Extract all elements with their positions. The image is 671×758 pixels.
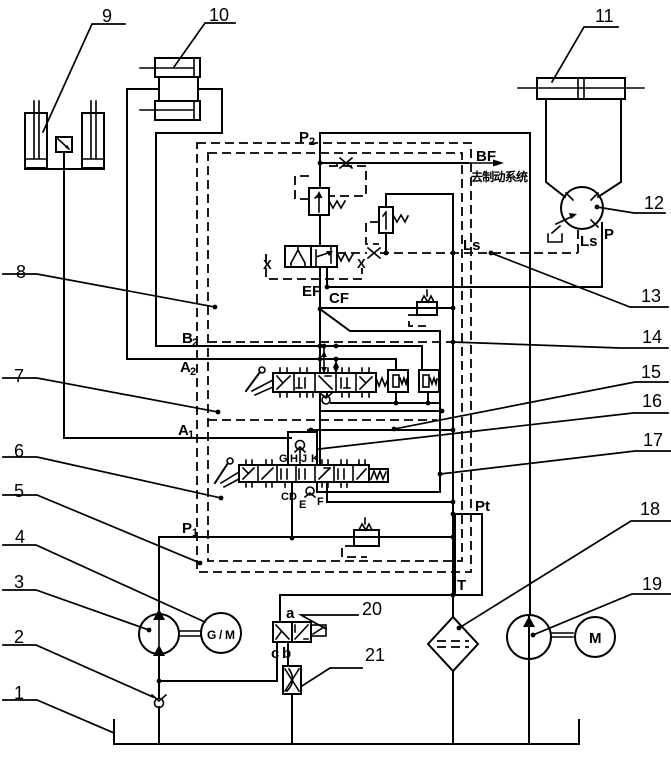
pump 19 circle: [507, 615, 551, 659]
port label EF: [302, 283, 321, 300]
wire relief2 bottom to Ls: [385, 233, 387, 253]
steering cylinder 10 upper: [140, 58, 200, 77]
svg-text:E: E: [299, 499, 306, 511]
svg-text:EF: EF: [302, 283, 321, 300]
label 4: [3, 527, 205, 622]
steering unit 12 circle: [561, 187, 603, 229]
wire b port to valve 21: [287, 642, 289, 666]
svg-text:15: 15: [641, 362, 661, 382]
port label CF: [329, 290, 349, 307]
pilot label X left: [263, 257, 272, 272]
wire EF continue to valve 2: [319, 392, 321, 465]
svg-text:14: 14: [642, 327, 662, 347]
directional valve 1 body: [273, 373, 376, 392]
wire compensator returns: [394, 392, 431, 405]
motor GM circle: [201, 613, 241, 653]
pilot dashed box left of main relief: [295, 176, 309, 199]
svg-text:P: P: [182, 520, 192, 537]
wire pump 19 suction: [528, 659, 530, 744]
wire EF junction diagonal to bridge: [320, 309, 439, 331]
port label Ls left: [463, 237, 481, 254]
port label A1: [178, 422, 194, 441]
valve 2 port ticks: [246, 460, 365, 487]
throttle valve 21: [283, 666, 301, 694]
port label T: [457, 577, 466, 594]
node Ls junction T line: [451, 251, 456, 256]
svg-text:3: 3: [14, 572, 24, 592]
label 2: [3, 627, 153, 697]
brake cylinder left of item 9: [25, 101, 47, 168]
node T line at drain rail: [451, 593, 456, 598]
svg-text:P: P: [604, 226, 614, 243]
wire c port to pump line: [157, 642, 277, 683]
check ball box above valve 2: [288, 432, 317, 465]
relief valve 4 on P1: [354, 518, 379, 546]
wire valve1 port arrow B: [321, 346, 327, 373]
pump 3 circle: [139, 609, 179, 656]
svg-text:7: 7: [14, 366, 24, 386]
steering unit inlet arrow: [556, 213, 577, 224]
svg-text:6: 6: [14, 441, 24, 461]
oil container under cylinder 11: [546, 99, 621, 197]
node EF junction: [318, 307, 323, 312]
steering unit port ticks: [566, 193, 598, 227]
wire cylinder10 right port to B2: [156, 89, 422, 370]
svg-text:19: 19: [642, 574, 662, 594]
svg-text:X: X: [263, 257, 272, 272]
wire P1 line: [159, 535, 455, 540]
label 14: [453, 327, 668, 348]
svg-text:CF: CF: [329, 290, 349, 307]
label 9: [43, 6, 125, 132]
node leader17 target: [438, 472, 443, 477]
svg-text:13: 13: [641, 286, 661, 306]
wire EF junction to relief3 and T: [320, 306, 455, 311]
node Ls junction relief2: [384, 251, 389, 256]
label 10: [174, 5, 235, 67]
valve 2 internals: [243, 468, 366, 479]
wire valve1 to ball rail: [308, 392, 327, 432]
svg-text:J: J: [301, 453, 307, 465]
label 6: [3, 441, 223, 500]
check valve 2 symbol: [152, 695, 166, 708]
port label A2: [180, 359, 196, 378]
wire relief to priority valve: [319, 215, 321, 246]
label 12: [595, 193, 665, 213]
port label Pt: [475, 498, 490, 515]
valve 1 port ticks: [280, 368, 369, 397]
wire valve2 E line: [327, 482, 455, 504]
wire BF line: [320, 160, 504, 167]
compensator U2: [419, 370, 439, 392]
wire valve2 P feed: [290, 482, 295, 540]
port labels a c b: [271, 605, 295, 662]
wire valve2 F line: [317, 482, 440, 492]
label 15: [392, 362, 668, 431]
node B2 junctions: [318, 344, 339, 349]
spring box of valve 2: [369, 469, 388, 482]
wire drain rail to solenoid valve: [280, 595, 453, 622]
wire valve 21 to tank: [291, 694, 293, 744]
lever of valve 1: [246, 367, 273, 395]
svg-text:16: 16: [642, 391, 662, 411]
label 21: [302, 645, 385, 686]
wire relief2 top to T line: [386, 194, 453, 207]
svg-text:20: 20: [362, 599, 382, 619]
pilot label X right: [357, 256, 366, 271]
lever of valve 2: [215, 458, 239, 487]
wire pump riser P1: [158, 537, 160, 614]
label 17: [440, 430, 671, 474]
svg-text:10: 10: [209, 5, 229, 25]
wire filter to tank: [452, 671, 454, 744]
wire A1 riser from shuttle: [64, 169, 291, 438]
svg-text:21: 21: [365, 645, 385, 665]
svg-text:T: T: [457, 577, 466, 594]
svg-text:1: 1: [192, 527, 198, 539]
svg-text:c: c: [271, 645, 279, 662]
svg-text:H: H: [290, 453, 298, 465]
label 13: [489, 251, 668, 307]
svg-text:G/M: G/M: [207, 628, 235, 642]
valve 20 internals: [276, 625, 308, 639]
spring of main relief: [329, 201, 345, 208]
svg-text:M: M: [589, 630, 602, 647]
svg-text:BF: BF: [476, 148, 496, 165]
port label P right: [604, 226, 614, 243]
label 16: [319, 391, 668, 449]
brake cylinder right of item 9: [82, 101, 104, 168]
svg-text:a: a: [286, 605, 295, 622]
port labels CD E F: [281, 491, 324, 511]
svg-text:Ls: Ls: [580, 233, 598, 250]
label 5: [3, 481, 202, 565]
label 19: [531, 574, 671, 637]
svg-text:5: 5: [14, 481, 24, 501]
wire frame to pump 19: [528, 615, 530, 659]
wire valve1 port arrow A: [333, 359, 339, 373]
svg-text:9: 9: [102, 6, 112, 26]
pilot dashed box of relief valve 3: [409, 315, 426, 326]
svg-text:18: 18: [640, 499, 660, 519]
wire pump3 suction: [158, 654, 160, 697]
steering unit tank symbol: [548, 226, 562, 242]
check ball under valve 1: [320, 393, 332, 404]
svg-text:K: K: [311, 453, 319, 465]
svg-text:17: 17: [643, 430, 663, 450]
motor M circle: [575, 617, 615, 657]
wire bridge vertical: [439, 331, 441, 492]
svg-text:去制动系统: 去制动系统: [471, 169, 528, 184]
port label P1: [182, 520, 198, 539]
spring of priority valve: [337, 253, 353, 261]
svg-text:11: 11: [595, 6, 614, 26]
priority valve body: [285, 246, 337, 267]
outer dashed enclosure: [197, 143, 471, 572]
priority valve right position symbol: [316, 246, 333, 267]
svg-text:Pt: Pt: [475, 498, 490, 515]
svg-text:1: 1: [188, 429, 194, 441]
check ball under valve 2: [305, 487, 315, 497]
port label BF: [476, 148, 496, 165]
relief valve 2 (LS relief): [379, 207, 393, 233]
filter 18: [428, 617, 478, 671]
inner dashed enclosure: [208, 153, 462, 561]
svg-text:CD: CD: [281, 491, 297, 503]
label 8: [3, 262, 217, 309]
dashed LS sense line mid: [208, 341, 453, 343]
dashed pilot line lower: [208, 419, 437, 421]
shuttle valve between brake cylinders: [56, 137, 72, 152]
wire P2 down to relief valve: [319, 133, 321, 188]
label 20: [301, 599, 382, 629]
wire CF to steering unit P port: [327, 223, 602, 287]
label 7: [3, 366, 220, 414]
wire EF down from priority valve: [319, 267, 321, 373]
wire P2 supply frame: [320, 133, 530, 615]
tank box T: [451, 512, 482, 595]
pilot dashed lines of priority valve: [266, 253, 367, 279]
svg-text:G: G: [279, 453, 288, 465]
wire check valve to tank: [158, 707, 160, 744]
shaft pump19 to M: [551, 633, 573, 637]
relief valve main on P2: [309, 188, 329, 215]
solenoid of valve 20: [311, 625, 326, 636]
svg-text:P: P: [299, 129, 309, 146]
valve 1 internals: [277, 376, 372, 389]
wire valve1 bottom rail: [331, 402, 440, 404]
label 18: [457, 499, 671, 630]
wire CF stub: [325, 267, 330, 289]
svg-text:Ls: Ls: [463, 237, 481, 254]
node P2-BF junction: [318, 161, 323, 166]
shaft pump3 to GM: [179, 631, 201, 636]
solenoid valve 20 body: [273, 622, 311, 642]
spring of relief valve 2: [393, 215, 408, 222]
label 1: [3, 683, 114, 733]
svg-text:2: 2: [14, 627, 24, 647]
wire brake cylinders bottom: [25, 152, 104, 169]
tank: [114, 720, 579, 744]
pilot dashed box of relief valve 2: [366, 222, 379, 244]
priority valve left position symbol: [291, 246, 305, 267]
steering wheel cylinder 11: [518, 78, 644, 99]
steering cylinder 10 lower: [140, 101, 200, 120]
svg-text:2: 2: [192, 337, 198, 349]
wire T return line vertical: [452, 194, 454, 617]
relief valve 3: [417, 290, 437, 315]
svg-text:2: 2: [309, 136, 315, 148]
port label P2: [299, 129, 315, 148]
pilot dashed box of relief valve 4: [342, 546, 367, 557]
directional valve 2 body: [239, 465, 369, 482]
orifice on Ls pilot line: [368, 248, 380, 258]
pilot dashed box right of main relief: [329, 163, 366, 196]
note to brake system (chinese): [471, 169, 528, 184]
steering cylinder 10 body: [159, 77, 198, 101]
label 3: [3, 572, 151, 632]
svg-text:8: 8: [16, 262, 26, 282]
svg-text:2: 2: [190, 366, 196, 378]
svg-text:b: b: [282, 645, 291, 662]
wire return rail y430: [308, 428, 455, 433]
spring of valve 1: [376, 378, 388, 386]
dashed Ls line to steering unit: [380, 229, 578, 253]
port label Ls right: [580, 233, 598, 250]
wire cylinder10 left port to A2: [127, 89, 396, 370]
node LS sense at T: [451, 340, 456, 345]
orifice on BF line: [340, 158, 352, 168]
svg-text:12: 12: [644, 193, 664, 213]
port labels G H J K: [279, 453, 319, 465]
compensator U1: [388, 370, 408, 392]
svg-text:4: 4: [15, 527, 25, 547]
port label B2: [182, 330, 198, 349]
node A2 junctions: [318, 357, 339, 362]
svg-text:F: F: [317, 496, 324, 508]
wire valve1 bottom rail 2: [320, 409, 444, 414]
label 11: [552, 6, 618, 82]
